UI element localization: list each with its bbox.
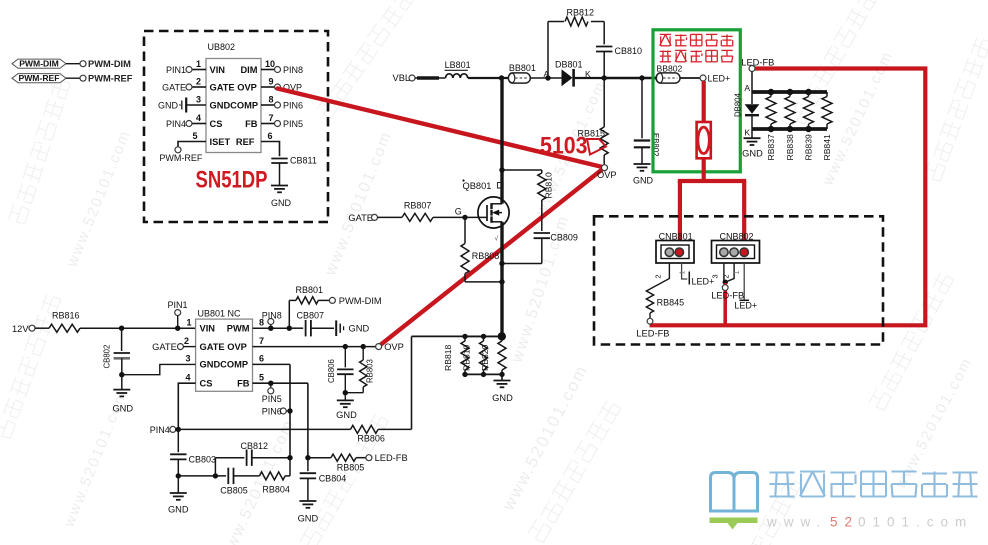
wire rail to junction bbox=[468, 77, 508, 79]
svg-text:PWM: PWM bbox=[227, 324, 250, 334]
svg-text:www.520101.com: www.520101.com bbox=[217, 417, 298, 545]
terminal OVP UB801 bbox=[376, 344, 382, 350]
svg-text:1: 1 bbox=[196, 59, 201, 69]
terminal PIN5 bbox=[270, 383, 272, 388]
terminal PIN8 bbox=[268, 319, 274, 325]
wire RB807 to gate node bbox=[433, 216, 465, 218]
svg-text:PWM-DIM: PWM-DIM bbox=[88, 59, 131, 69]
svg-text:GATE OVP: GATE OVP bbox=[210, 82, 257, 92]
UB802 pin4 terminal PIN4 bbox=[186, 121, 192, 127]
main drain wire bbox=[500, 78, 503, 204]
svg-text:LB801: LB801 bbox=[445, 60, 471, 70]
svg-text:GND: GND bbox=[112, 403, 133, 413]
wire RB815 to OVP terminal bbox=[603, 155, 605, 165]
CNB801 pin1 circle bbox=[675, 248, 683, 256]
svg-text:GND: GND bbox=[633, 176, 654, 186]
resistor RB806 bbox=[351, 425, 379, 433]
svg-text:GATE: GATE bbox=[162, 82, 186, 92]
svg-text:PWM-REF: PWM-REF bbox=[88, 74, 133, 84]
terminal PIN6 bbox=[287, 408, 292, 413]
wire BB801 to diode bbox=[530, 77, 561, 79]
resistor RB804 bbox=[260, 472, 286, 480]
resistor RB841 bbox=[826, 92, 828, 97]
node CB806 RB803 join bbox=[345, 392, 363, 394]
CNB802 pin1 stub LED+ bbox=[743, 263, 745, 300]
UB801 pin7 wire bbox=[253, 346, 376, 348]
svg-text:1: 1 bbox=[734, 270, 741, 274]
svg-text:PWM-DIM: PWM-DIM bbox=[19, 59, 59, 69]
bottom RC row wire bbox=[178, 475, 226, 477]
node CB802 bottom bbox=[119, 372, 124, 377]
svg-text:RB812: RB812 bbox=[567, 7, 595, 17]
red wire junction to LED-FB bus bbox=[723, 283, 727, 325]
CNB801 pin2 circle bbox=[665, 248, 673, 256]
svg-text:5: 5 bbox=[192, 131, 197, 141]
svg-text:PIN8: PIN8 bbox=[283, 65, 303, 75]
UB801 pin8 wire bbox=[253, 327, 290, 329]
UB802 pin4 wire bbox=[192, 123, 206, 125]
resistor RB810 bbox=[541, 170, 543, 173]
resistor RB819 bbox=[481, 334, 486, 339]
svg-text:9: 9 bbox=[268, 76, 273, 86]
svg-text:1: 1 bbox=[186, 318, 191, 328]
capacitor CB809 bbox=[534, 232, 550, 234]
capacitor CB811 bbox=[271, 158, 287, 160]
svg-text:CB804: CB804 bbox=[319, 473, 347, 483]
svg-text:GATE: GATE bbox=[348, 213, 373, 223]
wire LED-FB down to A bus bbox=[751, 72, 753, 93]
wire RB808 to source bbox=[465, 281, 502, 283]
UB801 pin3 wire bbox=[122, 364, 196, 374]
svg-text:6: 6 bbox=[259, 354, 264, 364]
svg-text:CB812: CB812 bbox=[241, 441, 269, 451]
capacitor CB802 bbox=[121, 328, 123, 351]
terminal PWM-DIM bbox=[80, 61, 86, 67]
resistor RB807 bbox=[402, 213, 433, 221]
LED block bottom bus bbox=[752, 127, 827, 131]
svg-text:PIN8: PIN8 bbox=[262, 310, 282, 320]
node CB803 bottom bbox=[176, 473, 181, 478]
terminal LED+ bbox=[700, 75, 706, 81]
svg-text:K: K bbox=[585, 69, 591, 79]
UB802 pin5 wire bbox=[178, 142, 206, 147]
svg-text:PIN4: PIN4 bbox=[166, 119, 186, 129]
svg-text:GND: GND bbox=[492, 393, 513, 403]
svg-text:DIM: DIM bbox=[240, 65, 257, 75]
sideways ground after CB807 bbox=[335, 320, 337, 336]
svg-text:PIN5: PIN5 bbox=[262, 394, 282, 404]
svg-text:RB837: RB837 bbox=[766, 134, 776, 160]
svg-text:OVP: OVP bbox=[597, 170, 617, 180]
capacitor CB804 bbox=[307, 458, 309, 472]
resistor RB839 bbox=[808, 92, 810, 97]
UB802 pin1 wire bbox=[192, 69, 206, 71]
resistor RB838 bbox=[789, 92, 791, 97]
node junction at QB801 drain column bbox=[499, 75, 504, 80]
svg-text:LED-FB: LED-FB bbox=[711, 291, 744, 301]
svg-text:VBL: VBL bbox=[393, 73, 411, 83]
svg-text:RB818: RB818 bbox=[443, 345, 453, 371]
svg-text:RB805: RB805 bbox=[337, 462, 365, 472]
svg-text:VIN: VIN bbox=[200, 324, 216, 334]
svg-text:GNDCOMP: GNDCOMP bbox=[210, 100, 259, 110]
svg-text:CB805: CB805 bbox=[220, 485, 248, 495]
svg-text:PWM-DIM: PWM-DIM bbox=[339, 296, 382, 306]
svg-text:2: 2 bbox=[196, 76, 201, 86]
svg-text:2: 2 bbox=[722, 274, 731, 278]
svg-text:CB806: CB806 bbox=[327, 359, 336, 383]
red chinese annotation line1 bbox=[660, 33, 671, 35]
UB802 pin6 wire bbox=[261, 142, 280, 157]
svg-text:RB841: RB841 bbox=[822, 134, 832, 160]
svg-text:GND: GND bbox=[298, 514, 319, 524]
svg-text:PIN4: PIN4 bbox=[150, 425, 170, 435]
capacitor CB812 bbox=[214, 458, 216, 476]
svg-text:GND: GND bbox=[742, 149, 763, 159]
wire RB816 to UB801 bbox=[80, 327, 196, 329]
op-amp/controller U1 UB802 body bbox=[206, 59, 261, 153]
svg-text:RB838: RB838 bbox=[785, 134, 795, 160]
node junction EB802 branch bbox=[639, 75, 644, 80]
CNB801 pin1 stub LED+ bbox=[682, 263, 688, 279]
CNB802 pin2 circle bbox=[730, 248, 738, 256]
svg-text:5: 5 bbox=[259, 373, 264, 383]
svg-text:4: 4 bbox=[185, 373, 190, 383]
UB801 pin4 wire bbox=[178, 383, 195, 429]
ferrite bead BB802 bbox=[656, 73, 680, 83]
svg-text:GATE OVP: GATE OVP bbox=[200, 342, 247, 352]
UB802 pin5 terminal PWM-REF bbox=[175, 147, 181, 153]
UB801 pin6 wire bbox=[253, 363, 291, 365]
svg-text:VIN: VIN bbox=[210, 65, 226, 75]
svg-text:4: 4 bbox=[196, 113, 201, 123]
wire A node up to RB812 bbox=[547, 22, 549, 79]
svg-text:UB801 NC: UB801 NC bbox=[198, 308, 242, 318]
CNB802 pin3 wire bbox=[723, 263, 725, 281]
svg-text:QB801: QB801 bbox=[463, 181, 492, 191]
red arrow pointing to RB815 bbox=[587, 139, 606, 155]
wire gate to mosfet bbox=[465, 216, 487, 218]
red wire LED-FB to right edge bbox=[650, 69, 926, 326]
svg-text:GATE: GATE bbox=[152, 342, 177, 352]
wire RB806 to sense column bbox=[378, 428, 411, 430]
UB802 pin8 wire bbox=[261, 104, 275, 106]
red annotation line from UB802 OVP to node bbox=[278, 89, 605, 168]
svg-text:www.: www. bbox=[766, 515, 827, 530]
resistor RB808 bbox=[464, 217, 466, 243]
svg-text:CB802: CB802 bbox=[103, 345, 112, 369]
red annotation line from node to UB801 OVP bbox=[379, 168, 605, 347]
ground below CB803 bbox=[177, 476, 179, 493]
wire K node down to RB815 bbox=[603, 78, 605, 127]
svg-text:OVP: OVP bbox=[384, 342, 404, 352]
svg-text:BB801: BB801 bbox=[509, 63, 536, 73]
svg-text:√: √ bbox=[495, 235, 499, 243]
svg-text:RB806: RB806 bbox=[357, 433, 385, 443]
main source wire bbox=[500, 222, 503, 337]
red wire LED+ down to fuse bbox=[702, 81, 706, 122]
svg-text:GND: GND bbox=[336, 410, 357, 420]
capacitor CB807 bbox=[289, 327, 303, 329]
svg-text:RB808: RB808 bbox=[472, 251, 500, 261]
node FB bottom bbox=[305, 455, 310, 460]
net pill PWM-REF bbox=[12, 74, 66, 83]
svg-text:RB807: RB807 bbox=[404, 200, 432, 210]
resistor RB815 bbox=[600, 127, 608, 155]
svg-text:DB804: DB804 bbox=[734, 92, 743, 117]
capacitor CB806 bbox=[344, 347, 346, 368]
controller U2 UB801 body bbox=[196, 319, 253, 391]
UB801 pin5 FB wire bbox=[253, 382, 308, 384]
resistor RB816 bbox=[49, 324, 80, 332]
UB802 pin2 terminal GATE bbox=[186, 84, 192, 90]
wire CB809 to source bbox=[502, 263, 542, 265]
svg-text:SN51DP: SN51DP bbox=[196, 167, 268, 194]
terminal PWM-REF bbox=[80, 75, 86, 81]
fuse/resistor 0 ohm highlighted bbox=[697, 122, 711, 158]
svg-text:7: 7 bbox=[268, 113, 273, 123]
svg-text:GNDCOMP: GNDCOMP bbox=[200, 360, 249, 370]
svg-text:CB811: CB811 bbox=[290, 156, 317, 166]
svg-text:12V: 12V bbox=[12, 324, 29, 334]
svg-text:CS: CS bbox=[200, 379, 213, 389]
svg-text:RB820: RB820 bbox=[480, 345, 490, 371]
UB802 pin7 wire bbox=[261, 123, 275, 125]
watermark texts bbox=[9, 78, 71, 224]
red wire down to CNB802 bbox=[742, 181, 746, 252]
svg-text:PIN6: PIN6 bbox=[283, 100, 303, 110]
wire RB812 to CB810 bbox=[591, 21, 604, 23]
svg-text:6: 6 bbox=[267, 131, 272, 141]
svg-text:52: 52 bbox=[830, 515, 859, 530]
svg-text:2: 2 bbox=[654, 274, 663, 278]
wire sense bus bbox=[465, 335, 502, 337]
wire drain to RB810 bbox=[502, 169, 542, 171]
svg-text:CS: CS bbox=[210, 119, 223, 129]
svg-text:LED+: LED+ bbox=[734, 300, 757, 310]
svg-text:LED-FB: LED-FB bbox=[375, 453, 408, 463]
svg-text:RB819: RB819 bbox=[462, 345, 472, 371]
terminal PWM-DIM right bbox=[329, 297, 335, 303]
svg-text:PIN1: PIN1 bbox=[168, 300, 188, 310]
UB802 pin10 wire bbox=[261, 69, 275, 71]
sense bottom bus bbox=[465, 373, 502, 375]
ground below CB802 bbox=[121, 375, 123, 390]
svg-text:PIN6: PIN6 bbox=[262, 407, 282, 417]
net pill PWM-DIM bbox=[12, 59, 66, 68]
ground below CB811 bbox=[271, 185, 288, 187]
terminal circle on red wire bbox=[722, 285, 728, 291]
dashed box around UB802 bbox=[144, 31, 328, 222]
capacitor CB805 bbox=[227, 468, 229, 484]
CNB802 pin3 circle bbox=[720, 248, 728, 256]
svg-text:FB: FB bbox=[237, 379, 250, 389]
transistor QB801 mosfet symbol bbox=[478, 197, 509, 228]
dashed box around CNB801/CNB802 bbox=[594, 216, 883, 344]
svg-text:GND: GND bbox=[168, 505, 189, 515]
svg-text:1: 1 bbox=[680, 270, 687, 274]
logo book icon bbox=[711, 473, 735, 512]
UB802 pin3 wire bbox=[187, 104, 206, 106]
svg-text:www.520101.com: www.520101.com bbox=[322, 129, 396, 279]
PIN4 row wire bbox=[175, 428, 351, 430]
red harness horizontal bbox=[678, 179, 746, 183]
svg-text:K: K bbox=[744, 128, 750, 138]
UB802 pin2 wire bbox=[192, 86, 206, 88]
node source sense junction bbox=[498, 332, 506, 340]
svg-text:RB804: RB804 bbox=[262, 485, 290, 495]
ground below CB806 bbox=[344, 393, 346, 400]
svg-text:GND: GND bbox=[271, 198, 292, 208]
svg-text:PIN1: PIN1 bbox=[166, 65, 186, 75]
svg-text:10: 10 bbox=[265, 59, 275, 69]
node drain junction bbox=[499, 167, 504, 172]
resistor RB812 bbox=[565, 17, 588, 26]
svg-text:3: 3 bbox=[185, 354, 190, 364]
UB802 pin8 terminal PIN6 bbox=[275, 102, 281, 108]
svg-text:3: 3 bbox=[711, 274, 720, 278]
terminal OVP at annotation node bbox=[602, 165, 608, 171]
svg-text:PWM-REF: PWM-REF bbox=[159, 153, 202, 163]
wire sense to RB806 column bbox=[412, 335, 502, 337]
CNB802 pin2 wire bbox=[726, 263, 734, 282]
svg-text:LED-FB: LED-FB bbox=[636, 329, 669, 339]
ground below DB804 bbox=[751, 129, 753, 138]
svg-text:RB803: RB803 bbox=[366, 359, 375, 383]
capacitor EB802 polarized bbox=[634, 139, 650, 141]
svg-text:www.520101.com: www.520101.com bbox=[63, 127, 134, 270]
svg-text:FB: FB bbox=[245, 119, 258, 129]
green highlight box bbox=[653, 30, 740, 172]
resistor RB820 bbox=[499, 334, 504, 339]
terminal LED-FB bottom bbox=[366, 455, 372, 461]
svg-text:REF: REF bbox=[236, 137, 255, 147]
resistor RB801 bbox=[288, 300, 290, 328]
red wire fuse down to harness bbox=[702, 158, 706, 181]
svg-text:GND: GND bbox=[349, 324, 370, 334]
UB802 pin7 terminal PIN5 bbox=[275, 121, 281, 127]
svg-text:0101.com: 0101.com bbox=[858, 515, 973, 530]
svg-text:RB839: RB839 bbox=[804, 134, 814, 160]
UB802 pin1 terminal PIN1 bbox=[186, 67, 192, 73]
svg-text:7: 7 bbox=[259, 336, 264, 346]
svg-text:PIN5: PIN5 bbox=[283, 119, 303, 129]
wire BB802 to LED+ terminal bbox=[681, 77, 701, 79]
FB vertical wire bbox=[307, 383, 309, 458]
svg-text:5103: 5103 bbox=[540, 132, 588, 159]
svg-text:BB802: BB802 bbox=[657, 63, 683, 73]
CNB801 pin2 wire to RB845 bbox=[650, 263, 669, 289]
svg-text:ISET: ISET bbox=[210, 137, 231, 147]
ground below CB804 bbox=[299, 500, 316, 502]
svg-text:RB801: RB801 bbox=[296, 285, 324, 295]
svg-text:PWM-REF: PWM-REF bbox=[18, 73, 59, 83]
UB802 pin10 terminal PIN8 bbox=[275, 67, 281, 73]
UB802 pin3 GND cap symbol bbox=[185, 98, 187, 113]
junction dot under CNB802 bbox=[723, 280, 728, 285]
svg-text:RB845: RB845 bbox=[657, 297, 685, 307]
UB802 pin9 terminal OVP bbox=[275, 84, 281, 90]
resistor RB803 bbox=[362, 347, 364, 360]
svg-text:LED+: LED+ bbox=[708, 74, 731, 84]
node G bbox=[462, 215, 467, 220]
wire junction down to EB802 bbox=[641, 78, 643, 138]
capacitor CB803 bbox=[177, 429, 179, 452]
svg-text:A: A bbox=[744, 83, 750, 93]
resistor RB805 bbox=[308, 457, 331, 459]
svg-text:GND: GND bbox=[158, 100, 179, 110]
LED block top bus bbox=[752, 90, 827, 94]
node K junction bbox=[602, 75, 607, 80]
svg-text:G: G bbox=[455, 206, 462, 216]
svg-text:8: 8 bbox=[268, 94, 273, 104]
svg-text:UB802: UB802 bbox=[208, 42, 236, 52]
svg-text:2: 2 bbox=[184, 336, 189, 346]
CNB802 pin1 circle bbox=[740, 248, 748, 256]
ferrite bead BB801 bbox=[508, 73, 530, 83]
resistor RB845 bbox=[646, 289, 653, 313]
red wire down to CNB801 bbox=[678, 181, 682, 252]
svg-text:LED-FB: LED-FB bbox=[741, 57, 774, 67]
svg-text:RB810: RB810 bbox=[543, 172, 553, 198]
svg-text:CB803: CB803 bbox=[189, 454, 217, 464]
UB802 pin9 wire bbox=[261, 86, 275, 88]
logo chinese text bbox=[770, 471, 795, 473]
RB845 bottom terminal bbox=[649, 313, 651, 318]
svg-text:CB810: CB810 bbox=[615, 46, 643, 56]
resistor RB837 bbox=[770, 92, 772, 97]
svg-text:3: 3 bbox=[196, 94, 201, 104]
svg-text:CB809: CB809 bbox=[550, 232, 578, 242]
capacitor CB810 bbox=[596, 46, 612, 48]
svg-text:www.520101.com: www.520101.com bbox=[498, 361, 591, 514]
resistor RB818 bbox=[462, 334, 467, 339]
svg-text:RB816: RB816 bbox=[52, 310, 80, 320]
red chinese annotation line2 bbox=[660, 50, 671, 52]
ground below EB802 bbox=[634, 163, 651, 165]
ground below sense resistors bbox=[501, 374, 503, 380]
svg-text:CB807: CB807 bbox=[297, 310, 325, 320]
svg-text:DB801: DB801 bbox=[555, 59, 583, 69]
